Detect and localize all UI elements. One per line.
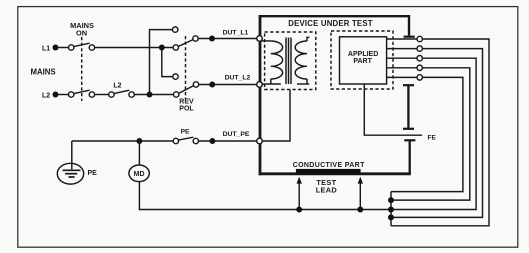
node L1 <box>42 45 59 53</box>
wire crossover L2 up to REV POL upper throw <box>150 27 178 95</box>
switch S3b REV POL lower <box>174 82 199 97</box>
wire DUT_L2 <box>199 84 257 86</box>
svg-text:REV: REV <box>179 99 194 106</box>
svg-text:ON: ON <box>76 28 87 37</box>
node L2 <box>42 92 59 100</box>
svg-text:DUT_PE: DUT_PE <box>223 131 250 138</box>
svg-text:L1: L1 <box>42 46 50 53</box>
wire L2 to switch S1b <box>59 94 69 96</box>
gang link dashed MAINS ON <box>81 37 83 101</box>
wire PE horizontal <box>72 140 173 142</box>
label TEST LEAD <box>316 178 338 194</box>
wire DUT_L1 <box>198 38 257 40</box>
svg-text:LEAD: LEAD <box>316 186 338 195</box>
wire applied part 5 return <box>391 77 463 191</box>
svg-text:PE: PE <box>181 128 190 135</box>
svg-text:CONDUCTIVE PART: CONDUCTIVE PART <box>293 162 365 169</box>
wire L1 switch to junction <box>95 47 174 49</box>
switch S3a REV POL upper <box>173 36 198 50</box>
node dot DUT_L1 <box>209 36 215 42</box>
junction PE to MD <box>136 138 142 144</box>
wire applied part to FE coupling <box>364 84 422 135</box>
junction arrow right on MD bus <box>357 207 363 213</box>
capacitor C2 FE electrode to conductive part <box>404 140 415 174</box>
DUT box top border <box>259 16 409 35</box>
applied part terminal circle 3 <box>417 56 422 61</box>
junction bus dot 2 <box>388 207 394 213</box>
label MAINS ON <box>70 21 94 37</box>
test lead contact bar <box>296 169 361 174</box>
junction on L1 wire <box>159 45 165 51</box>
applied part output wire 5 <box>387 76 418 78</box>
junction on L2 wire <box>147 92 153 98</box>
node dot DUT_PE <box>209 138 215 144</box>
switch S1b MAINS ON pole L2 <box>69 90 95 97</box>
wire between switches <box>95 94 109 96</box>
terminal circle DUT_PE on border <box>257 138 263 144</box>
node dot DUT_L2 <box>209 82 215 88</box>
capacitor C1 lower electrode and stem <box>403 85 414 129</box>
transformer T1 core <box>286 38 291 85</box>
svg-text:L2: L2 <box>113 82 121 89</box>
svg-text:PART: PART <box>353 58 372 65</box>
bus vertical return <box>390 192 392 226</box>
terminal circle DUT_L1 on border <box>257 36 263 42</box>
svg-text:PE: PE <box>88 170 98 177</box>
wire applied part 3 return <box>391 58 476 209</box>
wire DUT_PE <box>199 140 257 142</box>
applied part terminal circle 2 <box>417 46 422 51</box>
transformer T1 secondary winding <box>295 37 309 84</box>
gang link dashed REV POL <box>185 36 187 99</box>
applied part output wire 4 <box>387 67 418 69</box>
wire applied part 2 return <box>391 49 483 218</box>
svg-text:APPLIED: APPLIED <box>348 51 378 58</box>
switch S1a MAINS ON pole L1 <box>69 43 95 50</box>
test lead arrow right <box>358 177 363 210</box>
applied part terminal circle 5 <box>417 75 422 80</box>
svg-text:DUT_L1: DUT_L1 <box>223 29 249 36</box>
svg-text:FE: FE <box>428 134 437 141</box>
applied part output wire 2 <box>387 48 418 50</box>
applied part box U1 <box>340 37 387 84</box>
svg-text:L2: L2 <box>42 93 50 100</box>
applied part dashed box <box>331 31 393 89</box>
conductive part wire (thick) <box>259 172 411 175</box>
svg-text:MAINS: MAINS <box>31 68 56 77</box>
test lead arrow left <box>297 177 302 210</box>
DUT box left border <box>259 15 262 175</box>
wire applied part 1 return <box>391 39 489 226</box>
wire L2 switch to REV POL pole <box>134 94 173 96</box>
applied part terminal circle 1 <box>417 36 422 41</box>
junction arrow left on MD bus <box>296 207 302 213</box>
wire DUT_PE internal to transformer <box>262 90 290 142</box>
switch S4 PE <box>173 128 198 143</box>
wire crossover L1 down to REV POL lower throw <box>162 48 178 80</box>
applied part output wire 1 <box>387 38 418 40</box>
measuring device MD <box>129 141 149 182</box>
terminal circle DUT_L2 on border <box>257 82 263 88</box>
capacitor C1 enclosure electrode <box>404 36 415 38</box>
svg-text:DEVICE UNDER TEST: DEVICE UNDER TEST <box>288 19 372 28</box>
junction bus dot 3 <box>388 214 394 220</box>
svg-text:MD: MD <box>134 171 145 178</box>
wire MD to bus <box>139 182 391 210</box>
wire L1 to switch S1a <box>59 47 69 49</box>
applied part output wire 3 <box>387 57 418 59</box>
svg-text:POL: POL <box>179 106 194 113</box>
applied part terminal circle 4 <box>417 65 422 70</box>
junction bus dot 1 <box>388 197 394 203</box>
label REV POL <box>179 99 194 113</box>
svg-text:DUT_L2: DUT_L2 <box>225 74 251 81</box>
wire applied part 4 return <box>391 68 470 200</box>
transformer T1 primary winding <box>262 41 283 84</box>
ground PE symbol <box>57 141 97 184</box>
transformer T1 dashed box <box>265 32 316 90</box>
switch S2 L2 <box>109 82 135 97</box>
